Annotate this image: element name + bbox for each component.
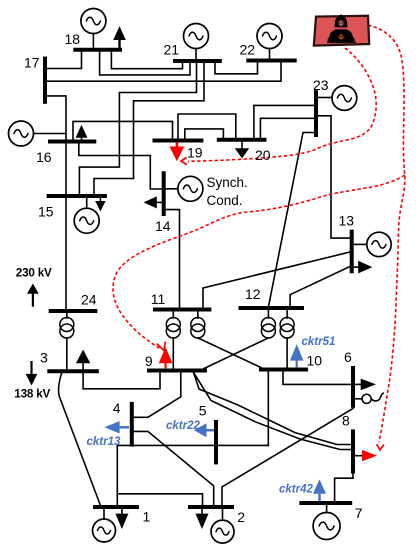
bus 13 (350, 230, 354, 274)
load arrow bus 6 (355, 379, 376, 391)
bus 3 (47, 369, 99, 373)
wire 1-5 / 2-4 long horizontal (117, 444, 268, 446)
load arrow bus 14 (144, 196, 162, 208)
wire 6-10 (283, 372, 351, 385)
bus 14 (162, 171, 166, 216)
svg-text:Cond.: Cond. (207, 193, 243, 208)
bus 7 (299, 501, 352, 505)
wire 3-9 (83, 373, 160, 389)
wire gen7 lead (326, 505, 328, 513)
bus 23 (314, 90, 318, 137)
wire gen1 lead (103, 509, 105, 520)
wire 21-22 (215, 62, 258, 74)
hacker icon panel (314, 16, 369, 46)
transformer 3-24 (60, 318, 74, 339)
svg-text:19: 19 (187, 145, 203, 161)
wire 16-19 (73, 121, 173, 139)
generator G2 (211, 520, 234, 543)
wire 5-10 (267, 372, 269, 446)
red tripped arrow bus 19 (170, 142, 185, 161)
generator G1 (93, 519, 116, 542)
BLUE ARROWS (104, 344, 326, 501)
bus 20 (217, 138, 267, 142)
svg-text:9: 9 (145, 353, 153, 369)
svg-text:8: 8 (342, 413, 350, 429)
wire 1-2 (116, 445, 118, 505)
blue arrow cktr42 bus 7 (313, 479, 326, 501)
wire gen15 lead (86, 198, 88, 208)
load arrow bus 20 (235, 141, 249, 158)
generator G16 (9, 121, 34, 146)
red dashed curve A icon to bus8 (368, 25, 405, 442)
load arrow bus 3 (76, 350, 90, 370)
wire gen16 lead (34, 133, 66, 135)
svg-text:12: 12 (245, 286, 261, 302)
red tripped arrow bus 9 (159, 347, 173, 368)
svg-text:10: 10 (307, 353, 323, 369)
wire 16-17 / 15-16 / 15-24 (47, 96, 66, 309)
generator G7 (313, 513, 340, 540)
wire 12-23 (268, 133, 314, 308)
wire 20-23 ckt2 (260, 118, 314, 138)
bus 18 (73, 48, 122, 52)
bus 12 (239, 306, 305, 310)
bus 5 (214, 420, 218, 464)
svg-text:cktr22: cktr22 (166, 420, 200, 432)
svg-text:21: 21 (164, 42, 180, 58)
wire gen13 lead (354, 243, 367, 245)
wire 13-23 (318, 116, 350, 238)
red dashed arrowhead bus9 (157, 342, 166, 351)
wire gen21 lead (195, 49, 197, 60)
bus 6 (351, 366, 355, 408)
wire 3-24 transformer leads (66, 313, 68, 318)
bus 11 (153, 308, 211, 312)
230kV up arrow (27, 284, 39, 307)
wire 9-11 transformer leads (172, 312, 174, 319)
svg-text:6: 6 (344, 349, 352, 365)
svg-text:Synch.: Synch. (207, 175, 248, 190)
wire 11-13 (203, 252, 350, 308)
bus 17 (43, 57, 47, 104)
svg-text:15: 15 (38, 204, 54, 220)
svg-text:cktr42: cktr42 (279, 484, 313, 496)
svg-text:138 kV: 138 kV (14, 388, 50, 401)
generator G21 (184, 24, 209, 49)
generator G22 (257, 24, 282, 49)
RED DASHED ATTACK CURVES (113, 25, 405, 450)
load arrow bus 18 (113, 26, 126, 48)
load arrow bus 2 (196, 509, 209, 529)
bus 8 (351, 429, 355, 473)
generator G23 (332, 86, 357, 111)
wire gen22 lead (269, 49, 271, 59)
wire gen23 lead (318, 97, 332, 99)
svg-text:230 kV: 230 kV (16, 267, 52, 280)
wire 15-21 ckt2 (94, 63, 204, 194)
138kV down arrow (26, 361, 38, 385)
wire 2-4 diagonal (134, 431, 214, 505)
svg-text:13: 13 (339, 213, 355, 229)
svg-text:20: 20 (255, 147, 271, 163)
svg-text:1: 1 (143, 509, 151, 525)
generator synchronous condenser (178, 176, 203, 201)
svg-text:cktr51: cktr51 (302, 336, 336, 348)
red dashed arrowhead bus8 (377, 444, 384, 450)
wire 8-10 (194, 373, 352, 450)
wire 18-21 ckt2 (111, 52, 182, 69)
wire 1-3 (58, 373, 100, 505)
svg-text:23: 23 (313, 77, 329, 93)
red tripped arrow bus 8 (355, 450, 377, 461)
hacker hooded figure (335, 14, 348, 27)
svg-text:17: 17 (24, 55, 40, 71)
bus 22 (246, 59, 296, 63)
transformer 10-12 (280, 318, 294, 339)
wire 2-6 (222, 409, 353, 506)
svg-text:4: 4 (113, 400, 121, 416)
red dashed curve B icon to bus19 (188, 48, 376, 161)
load arrow bus 13 (354, 261, 373, 274)
red dashed curve C to bus9 (113, 175, 405, 348)
transformer 9-12 (261, 318, 275, 339)
wire 8-9 (194, 373, 352, 445)
load arrow bus 16 (76, 125, 88, 140)
bus 21 (173, 59, 222, 63)
wire 14-16 (79, 143, 162, 189)
svg-text:11: 11 (151, 291, 166, 307)
reactor on cable 6-10 (355, 393, 383, 403)
wire 20-23 ckt1 (254, 105, 314, 138)
svg-text:7: 7 (355, 505, 363, 521)
svg-text:16: 16 (36, 149, 52, 165)
bus 9 (147, 369, 207, 373)
wire 19-20 ckt1 (178, 114, 236, 139)
wire 12-13 (290, 267, 350, 307)
generator G15 (74, 208, 99, 233)
svg-text:cktr13: cktr13 (87, 436, 121, 448)
TRANSFORMERS (60, 318, 294, 339)
svg-text:5: 5 (199, 403, 207, 419)
load arrow bus 1 (115, 509, 128, 529)
svg-text:24: 24 (81, 292, 97, 308)
blue arrow cktr51 bus 10 (290, 344, 304, 367)
wire gen2 lead (222, 509, 224, 521)
svg-text:18: 18 (65, 31, 81, 47)
transformer 10-11 (191, 318, 205, 339)
LOAD ARROWS black (26, 26, 376, 529)
bus 1 (93, 505, 139, 509)
load arrow bus 15 (95, 198, 105, 212)
svg-text:22: 22 (240, 42, 256, 58)
wire 10-12 transformer leads (286, 310, 288, 318)
generator G18 (81, 9, 106, 34)
HACKER ICON (314, 14, 369, 46)
bus 2 (188, 505, 234, 509)
red dashed arrowhead bus19 (181, 157, 187, 164)
transformer 9-11 (166, 318, 180, 339)
bus 4 (130, 402, 134, 447)
generator G13 (367, 232, 391, 256)
BUSES (45, 50, 353, 507)
wire 15-21 ckt1 (79, 63, 196, 194)
wire 11-14 (166, 210, 180, 308)
svg-text:14: 14 (155, 218, 171, 234)
wire 19-20 ckt2 (185, 129, 224, 139)
wire 10-11 transformer leads (197, 312, 199, 319)
svg-text:3: 3 (40, 350, 48, 366)
bus 24 (49, 309, 98, 313)
blue arrow cktr13 bus 4 (104, 421, 129, 433)
bus 19 (153, 139, 204, 143)
blue arrow cktr22 bus 5 (194, 423, 214, 437)
bus 16 (48, 140, 96, 144)
wire synch cond lead (166, 188, 178, 190)
wire 4-9 (134, 373, 181, 418)
wire 17-22 (47, 63, 281, 82)
wire gen18 lead (92, 34, 94, 49)
bus 10 (259, 368, 308, 372)
RED ARROWS (159, 142, 377, 461)
bus 15 (47, 194, 107, 198)
wire 9-12 transformer leads (267, 310, 269, 318)
wire 17-18 (47, 52, 82, 69)
wire 18-21 ckt1 (100, 52, 190, 75)
wire 7-8 (335, 473, 353, 501)
svg-text:2: 2 (237, 509, 245, 525)
